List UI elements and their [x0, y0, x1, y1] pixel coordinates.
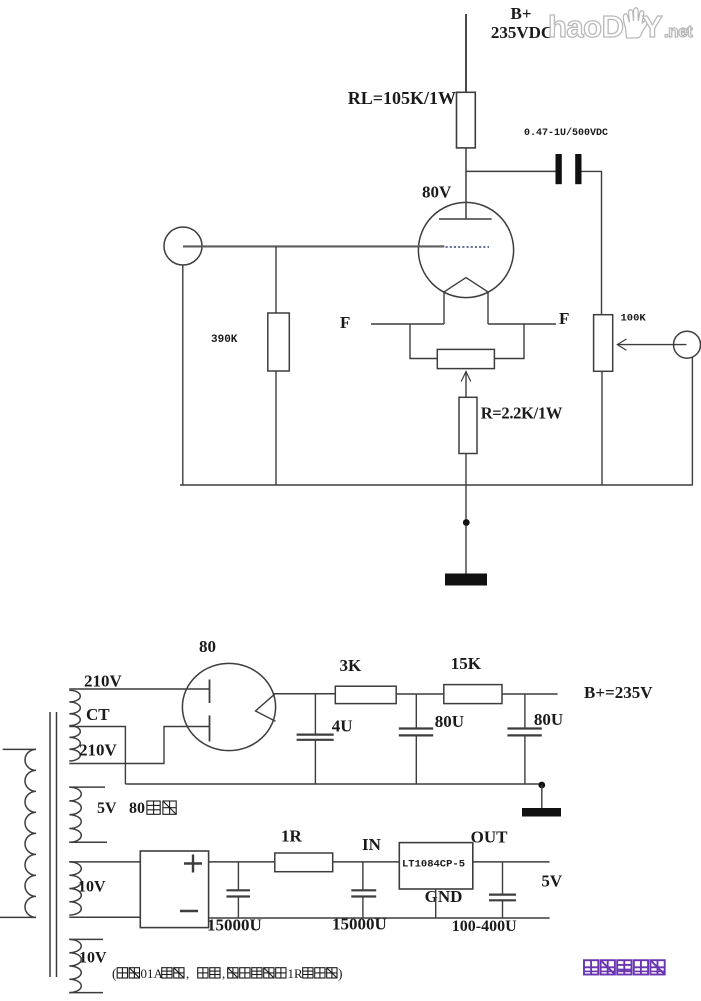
capacitor 15000U second — [332, 862, 387, 934]
svg-text:R=2.2K/1W: R=2.2K/1W — [481, 404, 563, 423]
transformer 10V winding second — [69, 939, 103, 992]
svg-text:F: F — [559, 309, 569, 328]
svg-text:(: ( — [112, 966, 117, 981]
capacitor 0.47-1U/500VDC — [524, 127, 608, 184]
svg-text:235VDC: 235VDC — [491, 23, 553, 42]
svg-text:210V: 210V — [79, 741, 118, 760]
capacitor 4U — [297, 694, 353, 784]
wire right drop to hum pot — [494, 324, 524, 359]
ground (bottom section) — [522, 785, 561, 817]
transformer HT secondary 210V-CT-210V — [69, 690, 80, 761]
svg-text:390K: 390K — [211, 334, 238, 346]
svg-text:80V: 80V — [422, 183, 452, 202]
wire input terminal to grid — [183, 245, 444, 247]
svg-text:B+: B+ — [510, 4, 531, 23]
input terminal — [164, 227, 202, 265]
triode plate — [439, 218, 492, 220]
svg-text:): ) — [338, 966, 343, 981]
svg-text:1R: 1R — [281, 827, 303, 846]
note text: another 01A filament, same as above, inductor can replace 1R — [112, 966, 343, 981]
wire coupling cap to 100K pot — [582, 171, 602, 314]
svg-text:100-400U: 100-400U — [452, 918, 517, 935]
wire B+ vertical into RL — [465, 14, 467, 93]
wire 1R to regulator IN — [333, 861, 400, 863]
transformer 10V winding first — [69, 862, 140, 917]
triode grid (dashed) — [446, 246, 490, 248]
wire output terminal down to rail — [691, 357, 693, 485]
wire left drop to hum pot — [410, 324, 437, 359]
svg-text:,: , — [222, 966, 225, 981]
wire rectifier output (B+) to 3K — [274, 693, 335, 695]
label 5V 80 filament — [97, 800, 176, 817]
cathode rail (top section) — [180, 484, 692, 486]
wiper of 100K pot — [617, 339, 686, 350]
capacitor 100-400U — [452, 862, 517, 935]
rectifier plates (dashed bar) — [209, 680, 211, 742]
svg-text:CT: CT — [86, 705, 110, 724]
wire 210V bottom to lower plate — [69, 727, 209, 764]
svg-text:5V: 5V — [541, 872, 563, 891]
svg-text:OUT: OUT — [471, 828, 509, 847]
wire input terminal down to cathode rail — [182, 265, 184, 485]
svg-text:F: F — [340, 313, 350, 332]
transformer 5V winding — [69, 787, 107, 842]
wire filament leg left — [443, 292, 445, 324]
resistor R=2.2K/1W — [459, 397, 563, 453]
resistor 3K — [335, 656, 396, 704]
wiper arrow of hum pot — [461, 372, 471, 398]
svg-text:B+=235V: B+=235V — [584, 683, 653, 702]
svg-text:,: , — [186, 966, 189, 981]
resistor RL=105K/1W — [348, 88, 476, 148]
wire F left — [371, 323, 444, 325]
regulator LT1084CP-5 — [399, 843, 473, 889]
svg-text:RL=105K/1W: RL=105K/1W — [348, 88, 456, 108]
GND rail — [209, 917, 550, 919]
svg-text:100K: 100K — [621, 313, 647, 325]
site logo text (purple) — [584, 960, 665, 974]
transformer primary winding — [0, 749, 36, 917]
haoDIY.net watermark logo — [548, 8, 693, 44]
svg-text:1R: 1R — [288, 966, 304, 981]
rectifier filament chevron — [256, 694, 276, 721]
capacitor 15000U first — [207, 862, 262, 935]
svg-text:3K: 3K — [340, 656, 363, 675]
triode 80V envelope — [418, 202, 513, 297]
svg-text:10V: 10V — [79, 950, 107, 967]
svg-text:4U: 4U — [332, 717, 353, 736]
wire R2.2K to rail — [465, 454, 467, 486]
potentiometer hum balance — [437, 349, 494, 368]
svg-text:GND: GND — [425, 887, 463, 906]
resistor 1R — [275, 827, 333, 872]
capacitor 80U second — [507, 694, 563, 784]
svg-text:haoD: haoD — [548, 9, 624, 44]
wire 100K pot bottom to rail — [601, 371, 603, 485]
ground (top section) — [445, 574, 487, 586]
output terminal — [674, 331, 701, 358]
bridge rectifier — [140, 851, 208, 928]
wire 15K to output — [502, 693, 558, 695]
transformer core — [50, 712, 57, 977]
resistor 15K — [444, 654, 502, 704]
wire rail to ground + junction dot — [463, 485, 470, 574]
wire regulator OUT — [473, 861, 550, 863]
svg-text:Y: Y — [642, 9, 663, 44]
wire F right — [488, 323, 556, 325]
svg-text:80: 80 — [199, 637, 216, 656]
wire 3K to 15K — [396, 693, 444, 695]
capacitor 80U first — [399, 694, 464, 784]
svg-text:10V: 10V — [78, 879, 106, 896]
svg-text:5V: 5V — [97, 800, 117, 817]
node B+ 235VDC label — [491, 4, 553, 42]
wire 210V top to plate — [69, 688, 209, 690]
svg-text:210V: 210V — [84, 672, 123, 691]
svg-text:0.47-1U/500VDC: 0.47-1U/500VDC — [524, 127, 608, 139]
junction dot on B- rail — [538, 782, 545, 789]
resistor 390K — [211, 246, 289, 371]
svg-text:80: 80 — [129, 800, 145, 817]
B- rail (bottom section) — [125, 783, 541, 785]
triode filament — [444, 278, 488, 292]
wire CT to B- rail — [69, 727, 125, 785]
svg-text:80U: 80U — [534, 710, 563, 729]
rectifier tube 80 envelope — [182, 663, 275, 750]
wire RL bottom to plate (node at coupling cap) — [465, 148, 467, 219]
wire regulator GND pin — [435, 889, 437, 918]
wire bridge plus to 1R — [209, 861, 275, 863]
wire 390K to rail — [275, 371, 277, 485]
svg-text:LT1084CP-5: LT1084CP-5 — [402, 859, 465, 871]
wire filament leg right — [487, 292, 489, 324]
potentiometer 100K — [594, 313, 647, 372]
svg-text:15K: 15K — [451, 654, 482, 673]
svg-text:01A: 01A — [141, 966, 164, 981]
svg-text:IN: IN — [362, 835, 382, 854]
wire plate node to coupling cap — [466, 170, 556, 172]
svg-text:.net: .net — [664, 22, 693, 41]
svg-text:80U: 80U — [435, 712, 464, 731]
